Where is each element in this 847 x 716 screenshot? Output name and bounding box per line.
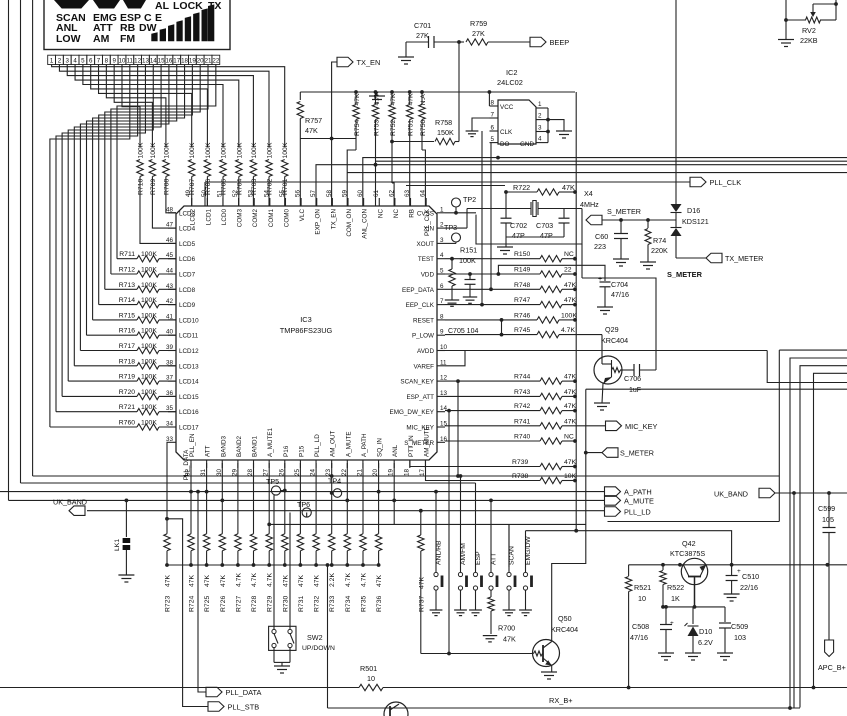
svg-text:47K: 47K (282, 574, 289, 587)
svg-text:C702: C702 (510, 221, 527, 230)
wire R722 left riser (504, 190, 508, 208)
wire C706 riser (582, 278, 656, 370)
svg-text:TP6: TP6 (297, 500, 310, 509)
wire IC2 pin7 (472, 118, 498, 131)
wire right drop 1 (790, 358, 847, 708)
resistor R759 27K (457, 19, 530, 45)
svg-text:LCD13: LCD13 (179, 363, 199, 370)
svg-text:100K: 100K (141, 389, 157, 396)
ground C510 (724, 594, 740, 601)
wire drop x449 (447, 409, 451, 656)
svg-text:46: 46 (166, 237, 174, 244)
ground C509 (717, 653, 733, 660)
flag TX_EN (337, 57, 380, 67)
svg-text:R757: R757 (305, 116, 322, 125)
capacitor C702 47P (501, 209, 528, 241)
ground D10 (685, 653, 701, 660)
resistor R733 2.2K (329, 534, 337, 612)
LCD legend text (56, 0, 221, 45)
svg-text:100K: 100K (459, 256, 476, 265)
resistor R732 47K (313, 534, 321, 612)
svg-text:4: 4 (538, 136, 542, 143)
svg-text:100K: 100K (282, 142, 289, 158)
svg-text:10: 10 (119, 58, 126, 65)
resistor R720 100K (62, 389, 176, 400)
svg-text:10: 10 (638, 594, 646, 603)
svg-text:R742: R742 (514, 403, 530, 410)
wire R757 jog to R754 (300, 138, 356, 140)
svg-text:R731: R731 (298, 596, 305, 612)
svg-text:R727: R727 (235, 596, 242, 612)
ground R74 (640, 262, 656, 269)
svg-text:47K: 47K (220, 574, 227, 587)
resistor R743 47K (445, 389, 577, 400)
op-amp U2 | EEPROM IC2 24LC02 (490, 68, 565, 148)
resistor R149 22 (445, 265, 605, 281)
svg-text:R739: R739 (512, 459, 528, 466)
svg-text:9: 9 (440, 329, 444, 336)
svg-text:MIC_KEY: MIC_KEY (625, 422, 658, 431)
wire PLL_CLK line (205, 182, 690, 206)
wire bus A_PATH (0, 491, 605, 493)
svg-text:S_METER: S_METER (620, 449, 654, 458)
ground switch ESP (469, 610, 482, 616)
diode D10 6.2V zener (685, 607, 713, 653)
wire SW2 right (290, 513, 307, 630)
svg-text:4.7K: 4.7K (251, 573, 258, 587)
resistor R719 100K (68, 374, 176, 385)
wire bus line 3 (316, 163, 847, 206)
flag UK_BAND right (714, 488, 847, 498)
resistor R751 47K (407, 92, 415, 206)
svg-text:X4: X4 (584, 189, 593, 198)
svg-text:R501: R501 (360, 664, 377, 673)
svg-text:UK_BAND: UK_BAND (53, 498, 87, 507)
IC3 top pins 49-64 (185, 189, 431, 238)
svg-text:LCD10: LCD10 (179, 317, 199, 324)
IC3 left pins 48-33 (LCD3-LCD17, PLL_DATA) (166, 206, 199, 480)
svg-text:PTT_IN: PTT_IN (408, 435, 415, 457)
svg-text:52: 52 (232, 189, 239, 197)
capacitor C599 105 (818, 491, 836, 640)
svg-text:R700: R700 (498, 624, 515, 633)
resistor R757 47K (297, 92, 322, 206)
svg-text:100K: 100K (141, 282, 157, 289)
svg-text:47K: 47K (562, 183, 575, 192)
svg-text:LCD0: LCD0 (221, 209, 228, 226)
svg-text:R738: R738 (512, 473, 528, 480)
resistor R731 47K (297, 534, 305, 612)
svg-text:R732: R732 (314, 596, 321, 612)
svg-text:100K: 100K (267, 142, 274, 158)
svg-text:R712: R712 (119, 267, 135, 274)
wire AVDD-VAREF (445, 351, 465, 366)
svg-text:R748: R748 (514, 282, 530, 289)
node S_METER label (667, 270, 703, 279)
ground R151 (445, 300, 459, 306)
svg-text:A_MUTE: A_MUTE (624, 496, 654, 505)
svg-text:LCD14: LCD14 (179, 379, 199, 386)
svg-text:KRC404: KRC404 (601, 336, 628, 345)
svg-text:EEP_CLK: EEP_CLK (406, 302, 435, 309)
resistor R727 4.7K (235, 534, 243, 612)
svg-text:16: 16 (440, 436, 448, 443)
svg-text:LCD9: LCD9 (179, 302, 196, 309)
svg-text:50: 50 (201, 189, 208, 197)
svg-text:R737: R737 (419, 596, 426, 612)
svg-text:S_METER: S_METER (667, 270, 703, 279)
svg-text:12: 12 (134, 58, 141, 65)
resistor R737 47K (418, 511, 426, 654)
svg-text:TX_METER: TX_METER (725, 254, 763, 263)
svg-text:EXP_ON: EXP_ON (315, 209, 322, 235)
svg-text:PLL_EN: PLL_EN (189, 433, 196, 457)
svg-text:3: 3 (66, 58, 70, 65)
resistor R742 47K (445, 403, 577, 414)
svg-text:15: 15 (158, 58, 165, 65)
ground Q29 (594, 403, 610, 410)
svg-text:47K: 47K (564, 418, 577, 425)
svg-text:IC2: IC2 (506, 68, 518, 77)
svg-text:R715: R715 (119, 312, 135, 319)
svg-text:C706: C706 (624, 374, 641, 383)
resistor R729 4.7K (266, 534, 274, 612)
svg-text:R717: R717 (119, 343, 135, 350)
ground R700 (483, 636, 497, 642)
svg-text:3: 3 (440, 237, 444, 244)
svg-text:100K: 100K (141, 312, 157, 319)
wire R710 to pin46 (140, 177, 176, 244)
svg-text:KTC3875S: KTC3875S (670, 549, 705, 558)
svg-text:223: 223 (594, 242, 606, 251)
resistor R704 100K (236, 142, 244, 206)
resistor R740 NC (445, 434, 577, 445)
svg-text:Q29: Q29 (605, 325, 619, 334)
svg-text:150K: 150K (437, 128, 454, 137)
svg-text:LOW: LOW (56, 33, 81, 45)
svg-text:DO: DO (500, 141, 510, 148)
svg-text:R746: R746 (514, 312, 530, 319)
svg-text:C703: C703 (536, 221, 553, 230)
svg-text:47P: 47P (512, 231, 525, 240)
svg-text:103: 103 (734, 633, 746, 642)
capacitor C509 103 (719, 607, 748, 653)
wire Q50 collector (552, 389, 586, 641)
wire SW2 left (273, 495, 275, 629)
resistor R716 100K (87, 328, 177, 339)
svg-text:R733: R733 (329, 596, 336, 612)
wire Q29 base (601, 335, 603, 364)
svg-text:47K: 47K (189, 574, 196, 587)
svg-text:47/16: 47/16 (611, 290, 629, 299)
svg-text:C705 104: C705 104 (448, 328, 478, 335)
svg-text:4: 4 (440, 252, 444, 259)
svg-text:AM_OUT: AM_OUT (330, 431, 337, 457)
svg-text:6.2V: 6.2V (698, 638, 713, 647)
wire right drop 2 (800, 366, 847, 708)
svg-text:100K: 100K (141, 328, 157, 335)
ground C704 (597, 307, 613, 314)
switch SCAN (507, 524, 516, 610)
svg-text:LCD5: LCD5 (179, 241, 196, 248)
svg-text:R719: R719 (119, 374, 135, 381)
svg-text:R710: R710 (138, 179, 145, 195)
wire staircase LCD pins 11-22 (50, 65, 216, 428)
svg-text:100K: 100K (138, 142, 145, 158)
flag BEEP (530, 37, 569, 47)
flag S_METER top (586, 207, 641, 225)
svg-text:22: 22 (564, 267, 572, 274)
wire right drop 5 (793, 493, 795, 708)
wire Q50 emitter (551, 666, 553, 673)
capacitor C508 47/16 (630, 605, 674, 653)
svg-text:LCD2: LCD2 (190, 209, 197, 226)
ground Q50 (541, 672, 557, 679)
flag A_PATH (605, 487, 652, 497)
capacitor C706 1uF (620, 364, 656, 394)
svg-text:R718: R718 (119, 358, 135, 365)
svg-text:C509: C509 (731, 622, 748, 631)
resistor R728 4.7K (250, 534, 258, 612)
svg-text:C599: C599 (818, 504, 835, 513)
svg-text:BAND3: BAND3 (220, 436, 227, 457)
wire pin1 (445, 211, 476, 215)
resistor R725 47K (203, 534, 211, 612)
svg-text:R735: R735 (361, 596, 368, 612)
svg-text:47: 47 (166, 222, 174, 229)
svg-text:4.7K: 4.7K (235, 573, 242, 587)
svg-text:R760: R760 (119, 420, 135, 427)
wire bus line 1 (363, 156, 847, 206)
svg-text:R750: R750 (420, 120, 427, 136)
svg-text:BAND2: BAND2 (236, 436, 243, 457)
svg-text:TP2: TP2 (463, 195, 476, 204)
svg-text:6: 6 (89, 58, 93, 65)
svg-text:29: 29 (231, 468, 238, 476)
svg-text:4.7K: 4.7K (561, 327, 575, 334)
svg-text:1: 1 (538, 101, 542, 108)
wire EEP_CLK (480, 131, 484, 307)
wire bus line 5 (406, 185, 505, 187)
ground rail (369, 92, 385, 103)
svg-text:1: 1 (440, 206, 444, 213)
wire VLC rail (300, 90, 575, 94)
capacitor C701 27K (406, 21, 459, 57)
wire EEP_DATA (489, 143, 493, 292)
svg-text:C704: C704 (611, 280, 628, 289)
wire XTAL to x656 (581, 244, 583, 278)
svg-text:48: 48 (166, 206, 174, 213)
svg-text:100K: 100K (205, 142, 212, 158)
svg-text:TMP86FS23UG: TMP86FS23UG (280, 326, 333, 335)
switch EMG/DW (523, 531, 532, 610)
svg-text:D16: D16 (687, 206, 700, 215)
svg-text:C701: C701 (414, 21, 431, 30)
svg-text:BAND1: BAND1 (252, 436, 259, 457)
svg-text:TP3: TP3 (444, 223, 457, 232)
svg-text:UP/DOWN: UP/DOWN (302, 645, 335, 652)
svg-text:R726: R726 (220, 596, 227, 612)
wire LK1 stem (125, 499, 129, 538)
svg-text:100K: 100K (141, 251, 157, 258)
wire crystal frame (476, 209, 582, 245)
svg-text:16: 16 (165, 58, 172, 65)
svg-text:100K: 100K (141, 420, 157, 427)
svg-text:XIN: XIN (424, 226, 435, 233)
svg-text:100K: 100K (189, 142, 196, 158)
svg-text:XOUT: XOUT (417, 241, 435, 248)
flag PLL_DATA (206, 687, 261, 697)
resistor R715 100K (93, 312, 176, 323)
wire left bus 2 (21, 0, 476, 483)
svg-text:SW2: SW2 (307, 633, 323, 642)
svg-text:R150: R150 (514, 251, 530, 258)
node RX_B+ label (549, 696, 573, 705)
svg-text:COM0: COM0 (283, 209, 290, 228)
ground switch AM/FM (454, 610, 467, 616)
wire TX_METER (676, 257, 706, 259)
resistor R752 47K (389, 92, 397, 206)
svg-text:8: 8 (105, 58, 109, 65)
wire S_METER top (602, 218, 676, 222)
svg-text:TEST: TEST (418, 256, 434, 263)
svg-text:LCD1: LCD1 (205, 209, 212, 226)
svg-text:A_MUTE: A_MUTE (345, 431, 352, 457)
svg-text:9: 9 (112, 58, 116, 65)
wires IC3 bottom pins to resistor bank (191, 463, 394, 534)
wire staircase LCD pins 1-10 (52, 65, 285, 148)
resistor R734 4.7K (344, 534, 352, 612)
svg-text:P_LOW: P_LOW (412, 333, 434, 340)
ground switch EMG/DW (519, 610, 532, 616)
resistor R706 100K (204, 142, 212, 206)
svg-text:47K: 47K (376, 574, 383, 587)
svg-text:4MHz: 4MHz (580, 200, 599, 209)
wire A_PATH drop (608, 350, 847, 521)
svg-text:22KB: 22KB (800, 36, 818, 45)
svg-text:R151: R151 (460, 246, 477, 255)
svg-text:47K: 47K (419, 576, 426, 589)
svg-text:TP4: TP4 (328, 477, 341, 486)
svg-text:2: 2 (58, 58, 62, 65)
resistor R713 100K (105, 282, 176, 293)
svg-text:6: 6 (490, 125, 494, 132)
svg-text:17: 17 (419, 468, 426, 476)
junction dots bottom (189, 474, 396, 526)
svg-text:R728: R728 (251, 596, 258, 612)
svg-text:TX_EN: TX_EN (330, 209, 337, 230)
svg-text:LCD7: LCD7 (179, 272, 196, 279)
svg-text:R714: R714 (119, 297, 135, 304)
resistor R726 47K (219, 534, 227, 612)
svg-text:EMG/DW: EMG/DW (525, 536, 532, 565)
svg-text:IC3: IC3 (300, 315, 312, 324)
resistor R753 4.7K (372, 91, 380, 206)
svg-text:47/16: 47/16 (630, 633, 648, 642)
resistor R738 10K (426, 460, 577, 484)
flag MIC_KEY (606, 421, 658, 431)
svg-text:PLL_LD: PLL_LD (624, 508, 651, 517)
svg-text:A_MUTE1: A_MUTE1 (267, 427, 274, 457)
resistor R730 47K (282, 534, 290, 612)
resistor R74 220K (645, 220, 668, 262)
svg-text:R747: R747 (514, 297, 530, 304)
capacitor C703 47P (536, 209, 570, 241)
svg-text:R759: R759 (470, 19, 487, 28)
svg-text:DW: DW (139, 22, 157, 34)
svg-text:AM/FM: AM/FM (460, 543, 467, 565)
svg-text:+: + (670, 620, 674, 627)
wire Q29 emitter (602, 384, 603, 404)
svg-text:ANL/RB: ANL/RB (436, 540, 443, 565)
svg-text:47K: 47K (305, 126, 318, 135)
wire crystal bottom (506, 237, 564, 247)
svg-text:FM: FM (120, 33, 135, 45)
svg-text:17: 17 (173, 58, 180, 65)
wire RX_B+ rail (0, 686, 847, 690)
svg-text:PLL_LD: PLL_LD (314, 434, 321, 457)
svg-text:27K: 27K (472, 29, 485, 38)
svg-text:ANL_CON: ANL_CON (362, 209, 369, 239)
svg-text:S_METER: S_METER (607, 207, 641, 216)
resistor R758 150K (390, 118, 459, 145)
svg-text:VDD: VDD (421, 272, 435, 279)
resistor R701 100K (282, 142, 290, 206)
resistor R723 47K (164, 534, 172, 612)
svg-text:LOCK: LOCK (173, 0, 203, 12)
svg-text:47P: 47P (540, 231, 553, 240)
transistor Q29 KRC404 (594, 325, 628, 384)
svg-text:51: 51 (216, 189, 223, 197)
resistor R747 47K (445, 297, 577, 308)
svg-text:LCD15: LCD15 (179, 394, 199, 401)
wire Q42 base rail (629, 563, 847, 567)
svg-text:R149: R149 (514, 267, 530, 274)
svg-text:22/16: 22/16 (740, 583, 758, 592)
svg-text:R522: R522 (667, 583, 684, 592)
wire right drop 3 (814, 373, 847, 687)
svg-text:CLK: CLK (500, 129, 513, 136)
svg-text:R753: R753 (374, 120, 381, 136)
LCD signal bars (151, 4, 214, 41)
wire left bus 3 (33, 0, 780, 478)
resistor R522 1K (660, 565, 684, 607)
flag PLL_STB (208, 702, 259, 712)
svg-text:105: 105 (822, 515, 834, 524)
flag UK_BAND left (53, 498, 87, 516)
flag TX_METER (706, 253, 763, 263)
svg-text:47K: 47K (408, 93, 415, 106)
transistor Q42 KTC3875S (670, 539, 708, 585)
svg-text:47K: 47K (503, 635, 516, 644)
svg-text:54: 54 (263, 189, 270, 197)
wire R501 drop (326, 563, 330, 708)
svg-text:R711: R711 (119, 251, 135, 258)
capacitor C60 223 (594, 220, 628, 259)
svg-text:COM_ON: COM_ON (346, 209, 353, 237)
svg-text:Q42: Q42 (682, 539, 696, 548)
test point TP5 (266, 477, 287, 495)
diode D16 KDS121 (671, 0, 709, 258)
ground C705 (463, 297, 477, 303)
svg-text:4.7K: 4.7K (374, 91, 381, 105)
svg-text:R752: R752 (390, 120, 397, 136)
capacitor C704 47/16 (598, 276, 629, 307)
svg-text:LCD11: LCD11 (179, 333, 199, 340)
ground IC2 (556, 131, 572, 138)
svg-text:14: 14 (150, 58, 157, 65)
svg-text:7: 7 (97, 58, 101, 65)
